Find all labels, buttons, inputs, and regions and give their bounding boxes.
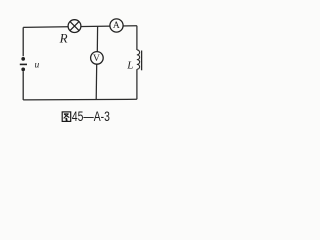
wire right rail upper — [136, 26, 138, 50]
source u terminal dot top — [21, 57, 25, 61]
svg-text:u: u — [35, 61, 40, 71]
wire left rail lower — [22, 71, 24, 100]
wire voltmeter branch upper — [96, 26, 98, 52]
wire right rail lower — [136, 69, 138, 99]
svg-text:R: R — [59, 31, 68, 46]
inductor L core bar — [141, 51, 143, 71]
voltmeter V circle — [91, 52, 104, 65]
wire bottom rail — [23, 98, 137, 101]
lamp R circle — [68, 20, 81, 33]
caption hanzi tu boxed glyph — [62, 112, 70, 122]
svg-text:A: A — [113, 21, 120, 31]
inductor L coil — [137, 50, 140, 69]
ammeter A circle — [110, 19, 123, 32]
svg-text:L: L — [126, 59, 133, 71]
wire left rail upper — [22, 27, 24, 56]
wire top rail — [23, 26, 137, 28]
source u dash — [20, 63, 27, 65]
lamp R cross — [70, 22, 79, 31]
svg-text:45—A-3: 45—A-3 — [72, 109, 110, 124]
source u terminal dot bottom — [21, 68, 25, 72]
wire voltmeter branch lower — [95, 64, 98, 100]
svg-text:V: V — [93, 54, 100, 64]
